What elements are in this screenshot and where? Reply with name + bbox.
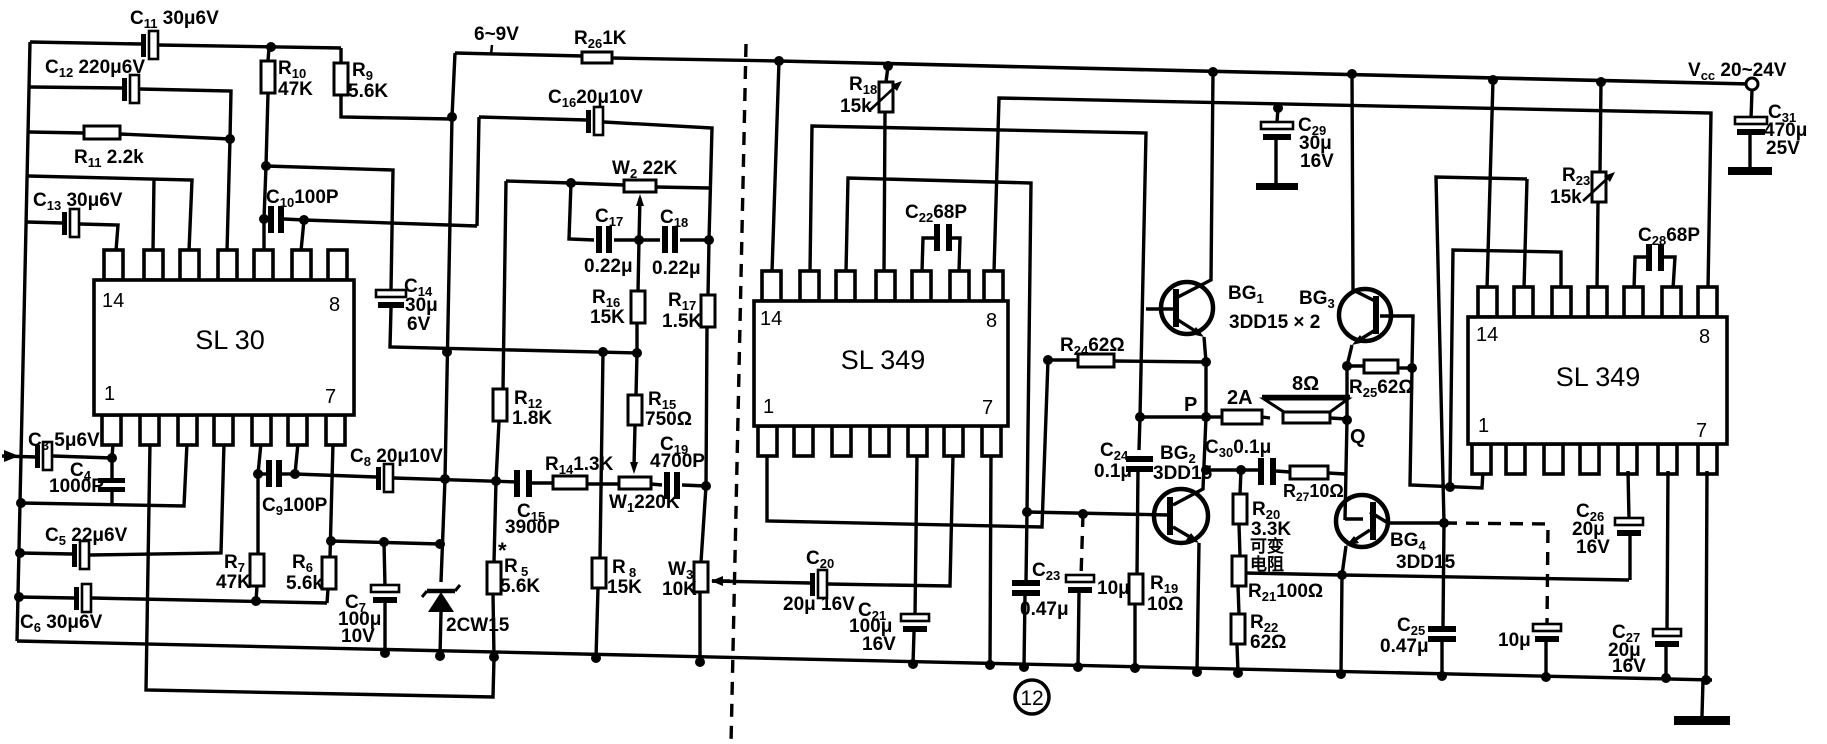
- resistor R20: [1240, 470, 1241, 494]
- svg-text:8: 8: [1699, 326, 1710, 348]
- svg-text:8: 8: [986, 310, 997, 332]
- node R20 top: [1236, 465, 1246, 475]
- node BG3 collector rail: [1347, 69, 1357, 79]
- node W3 bottom bus: [695, 657, 705, 667]
- node W2 left: [566, 178, 576, 188]
- wire 6-9V supply vertical: [441, 53, 455, 582]
- capacitor C6: [19, 597, 74, 598]
- capacitor C7: [384, 542, 385, 587]
- transistor BG3: [1339, 289, 1391, 341]
- svg-text:C5 22μ6V: C5 22μ6V: [45, 525, 128, 548]
- wire SL349 pin2 to BG1 base line: [810, 126, 1146, 417]
- wire bottom ground bus: [17, 641, 1712, 680]
- wire C9 to C8: [295, 474, 376, 477]
- node C17/C18 mid: [634, 235, 644, 245]
- svg-text:3DD15 × 2: 3DD15 × 2: [1229, 312, 1320, 333]
- node BG4 emitter bus: [1336, 669, 1346, 679]
- capacitor C25: [1443, 523, 1444, 626]
- resistor R6: [322, 557, 336, 589]
- svg-text:R2562Ω: R2562Ω: [1349, 377, 1414, 400]
- capacitor C3: [35, 445, 40, 468]
- resistor R25: [1342, 361, 1352, 371]
- svg-text:8Ω: 8Ω: [1292, 373, 1319, 395]
- IC U1 SL 30: [104, 250, 123, 280]
- resistor R5: [494, 481, 496, 562]
- svg-text:0.1μ: 0.1μ: [1094, 461, 1132, 482]
- node R24 right on emitter line: [1201, 357, 1211, 367]
- R21 wiper tap: [1246, 573, 1629, 580]
- node C12/R11 junction: [225, 134, 235, 144]
- node supply/C14 row crossing: [442, 347, 452, 357]
- svg-text:3900P: 3900P: [505, 517, 560, 538]
- svg-text:14: 14: [102, 290, 124, 312]
- wire right-IC pin1-top riser: [1487, 80, 1493, 289]
- capacitor C10: [268, 206, 274, 233]
- svg-text:电阻: 电阻: [1250, 554, 1284, 574]
- speaker 8 ohm: [1262, 395, 1350, 400]
- svg-text:可变: 可变: [1250, 536, 1284, 556]
- svg-text:0.47μ: 0.47μ: [1380, 636, 1429, 657]
- capacitor C29: [1277, 108, 1278, 122]
- capacitor C27: [1667, 471, 1668, 631]
- node C10 right / pin6: [299, 215, 309, 225]
- capacitor C21: [915, 455, 917, 616]
- wire C10 row to C16 riser: [304, 220, 477, 226]
- resistor R26: [455, 53, 583, 56]
- capacitor C24: [1126, 456, 1153, 462]
- svg-text:5.6K: 5.6K: [348, 81, 388, 102]
- wire Vcc top rail: [779, 61, 1750, 84]
- svg-text:2CW15: 2CW15: [446, 615, 510, 636]
- svg-text:R21100Ω: R21100Ω: [1248, 581, 1323, 604]
- zener diode 2CW15: [428, 592, 454, 612]
- IC U3 SL 349 right: [1478, 287, 1497, 317]
- wire C4 bottom row: [21, 443, 187, 506]
- fuse 2A: [1206, 415, 1222, 418]
- node R12 bottom / C8-C15 row: [491, 476, 501, 486]
- svg-text:1: 1: [763, 396, 774, 418]
- wire Q to BG4 base: [1345, 420, 1347, 520]
- svg-text:C6 30μ6V: C6 30μ6V: [20, 612, 103, 635]
- svg-text:14: 14: [1476, 324, 1498, 346]
- resistor R15: [636, 353, 637, 396]
- capacitor C30: [1206, 468, 1258, 471]
- svg-text:R141.3K: R141.3K: [545, 454, 614, 477]
- svg-text:16V: 16V: [1612, 656, 1646, 677]
- svg-text:C9100P: C9100P: [262, 495, 328, 518]
- resistor R24: [1043, 355, 1053, 365]
- svg-text:1.5K: 1.5K: [662, 311, 702, 332]
- node C7 top: [379, 537, 389, 547]
- transistor BG2: [1154, 489, 1208, 543]
- W3 wiper arrow from C20: [712, 579, 730, 582]
- resistor R21 variable: [1232, 556, 1246, 586]
- svg-text:8: 8: [329, 294, 340, 316]
- input arrow: [2, 456, 37, 457]
- svg-text:*: *: [498, 538, 507, 563]
- svg-text:C2268P: C2268P: [905, 202, 967, 225]
- node R5 bottom bus: [489, 652, 499, 662]
- node Q junction: [1342, 415, 1352, 425]
- node P junction: [1135, 412, 1145, 422]
- svg-text:10K: 10K: [662, 579, 697, 600]
- node C9 left / pin5: [253, 469, 263, 479]
- svg-text:1: 1: [104, 383, 115, 405]
- capacitor C9: [258, 472, 266, 475]
- svg-text:R2710Ω: R2710Ω: [1283, 481, 1344, 504]
- svg-text:C300.1μ: C300.1μ: [1205, 437, 1271, 460]
- node R6 top wire junction: [326, 536, 336, 546]
- svg-text:C13 30μ6V: C13 30μ6V: [33, 190, 123, 213]
- node supply/C8 row: [440, 474, 450, 484]
- resistor R23 variable: [1600, 82, 1601, 172]
- resistor R17: [708, 240, 709, 296]
- resistor R22: [1231, 614, 1245, 644]
- svg-text:7: 7: [982, 397, 993, 419]
- dashed channel separator: [731, 44, 746, 744]
- svg-text:P: P: [1184, 394, 1197, 416]
- node C23 top / BG2 base: [1022, 507, 1032, 517]
- capacitor C31: [1751, 90, 1752, 119]
- node supply/R9 junction: [447, 112, 457, 122]
- ground main: [1702, 680, 1703, 716]
- svg-text:7: 7: [325, 386, 336, 408]
- node pin3 line junction: [1445, 482, 1455, 492]
- node BG4 emitter wiper junction: [1337, 570, 1347, 580]
- svg-text:47K: 47K: [278, 79, 313, 100]
- svg-text:R2462Ω: R2462Ω: [1060, 335, 1125, 358]
- node BG1 collector rail: [1208, 67, 1218, 77]
- svg-text:0.22μ: 0.22μ: [584, 256, 633, 277]
- node rail/pin14 SL349: [774, 56, 784, 66]
- svg-text:0.47μ: 0.47μ: [1020, 599, 1069, 620]
- svg-text:Q: Q: [1350, 426, 1366, 448]
- svg-text:3DD15: 3DD15: [1396, 552, 1456, 573]
- IC U2 SL 349: [762, 271, 781, 301]
- svg-text:10μ: 10μ: [1097, 578, 1130, 599]
- node rail2 / C29: [1273, 103, 1283, 113]
- capacitor C14: [266, 166, 393, 290]
- resistor R7: [250, 554, 264, 586]
- resistor R9: [334, 63, 348, 95]
- node rail pin1 right IC: [1488, 75, 1498, 85]
- svg-text:14: 14: [760, 308, 782, 330]
- capacitor C11: [30, 42, 141, 44]
- node C7 bottom bus: [380, 648, 390, 658]
- node 10u bus: [1073, 662, 1083, 672]
- svg-text:15K: 15K: [590, 307, 625, 328]
- wire pin14 SL349 riser: [772, 61, 779, 272]
- wire right-IC pin2 feedback line: [1436, 177, 1527, 523]
- wire BG2 base: [1027, 512, 1168, 515]
- svg-text:15K: 15K: [607, 577, 642, 598]
- wire P node: [1140, 415, 1206, 418]
- svg-text:16V: 16V: [1300, 151, 1334, 172]
- capacitor C4: [110, 458, 113, 479]
- svg-text:15k: 15k: [840, 96, 872, 117]
- capacitor C17: [596, 226, 602, 253]
- wire R25 right to SL349 pin1 jog: [1410, 368, 1483, 488]
- node C18 right: [704, 235, 714, 245]
- svg-text:2A: 2A: [1227, 387, 1253, 409]
- terminal Vcc: [1746, 78, 1758, 90]
- svg-text:47K: 47K: [216, 572, 251, 593]
- svg-text:R11 2.2k: R11 2.2k: [74, 147, 144, 170]
- node rail R23: [1596, 77, 1606, 87]
- resistor R8: [600, 352, 603, 558]
- svg-text:5.6k: 5.6k: [286, 573, 323, 594]
- wire W2-left to R12: [569, 183, 594, 240]
- node 10u right bus: [1541, 672, 1551, 682]
- resistor R16: [638, 240, 639, 292]
- node supply/zener row: [435, 539, 445, 549]
- W1 wiper arrow: [634, 425, 635, 466]
- wire BG1 base line down / C24 / R19: [1139, 417, 1140, 450]
- wire row to pins 2,3 of SL30: [28, 176, 192, 251]
- ground C31: [1728, 167, 1772, 175]
- W2 wiper: [639, 198, 640, 240]
- node R16/R15 junction: [632, 348, 642, 358]
- svg-text:10Ω: 10Ω: [1147, 594, 1183, 615]
- wire right-IC pin7 to bus: [1706, 471, 1707, 680]
- wire SL349 pin3 to BG2 base line: [846, 178, 1031, 512]
- capacitor C13: [27, 222, 62, 223]
- svg-text:6~9V: 6~9V: [474, 24, 519, 45]
- svg-text:10V: 10V: [341, 626, 375, 647]
- transistor BG4: [1336, 495, 1388, 547]
- svg-text:12: 12: [1020, 687, 1043, 710]
- resistor R12: [503, 181, 506, 390]
- capacitor bootstrap 10μ right: [1533, 624, 1561, 631]
- capacitor C5: [20, 553, 72, 554]
- potentiometer W2: [506, 181, 571, 183]
- svg-text:C10100P: C10100P: [266, 187, 339, 210]
- capacitor C8: [376, 467, 381, 490]
- svg-text:SL 349: SL 349: [1556, 362, 1641, 392]
- capacitor C26: [1628, 471, 1629, 519]
- svg-text:20μ 16V: 20μ 16V: [783, 594, 855, 615]
- node C9 right / pin6: [290, 469, 300, 479]
- svg-text:R: R: [612, 557, 626, 578]
- node C10 left / R10 / pin5: [259, 214, 269, 224]
- resistor R10: [261, 61, 275, 93]
- potentiometer W1: [619, 477, 651, 489]
- svg-text:C3 5μ6V: C3 5μ6V: [28, 430, 100, 453]
- svg-text:7: 7: [1696, 420, 1707, 442]
- wire SL349 pin8 second rail: [994, 98, 1711, 289]
- potentiometer W3: [694, 562, 708, 592]
- wire bottom-left loop from SL30 pin2: [146, 443, 494, 697]
- svg-text:W2 22K: W2 22K: [612, 158, 678, 181]
- svg-text:1000P: 1000P: [49, 476, 104, 497]
- capacitor C16: [479, 117, 587, 120]
- svg-text:1.8K: 1.8K: [512, 408, 552, 429]
- node R8 bottom bus: [591, 653, 601, 663]
- wire SL349 pin1 to R24: [767, 360, 1048, 527]
- node R19 bus: [1130, 663, 1140, 673]
- svg-text:SL 30: SL 30: [195, 325, 265, 355]
- capacitor C20: [712, 581, 810, 583]
- ground C29: [1256, 183, 1298, 190]
- transistor BG1: [1161, 282, 1213, 334]
- node C25 bus: [1437, 671, 1447, 681]
- capacitor C22: [922, 238, 936, 272]
- capacitor bootstrap 10μ left: [1078, 509, 1088, 519]
- capacitor C18: [639, 238, 660, 241]
- svg-text:15k: 15k: [1550, 187, 1582, 208]
- svg-text:SL 349: SL 349: [841, 345, 926, 375]
- svg-text:C11 30μ6V: C11 30μ6V: [130, 8, 219, 31]
- dashed bootstrap link right: [1444, 523, 1548, 626]
- resistor R11: [29, 132, 84, 133]
- wire right-IC pin3 line: [1450, 250, 1561, 487]
- node BG2 emitter bus: [1192, 667, 1202, 677]
- svg-text:16V: 16V: [1576, 537, 1610, 558]
- svg-text:C2868P: C2868P: [1638, 225, 1700, 248]
- node R10/C14 junction: [261, 161, 271, 171]
- svg-text:6V: 6V: [407, 314, 431, 335]
- svg-text:0.22μ: 0.22μ: [652, 258, 701, 279]
- wire left vertical supply-decoupling bus: [17, 42, 30, 641]
- node C3/C4/pin1 junction: [107, 453, 117, 463]
- capacitor C12: [30, 87, 122, 88]
- svg-text:62Ω: 62Ω: [1250, 632, 1286, 653]
- svg-text:1: 1: [1478, 415, 1489, 437]
- node C19 right / R17-W3 line: [701, 481, 711, 491]
- resistor R27: [1290, 466, 1328, 479]
- circled 12 note: [1015, 680, 1049, 714]
- node R8 line junction: [598, 347, 608, 357]
- svg-text:10μ: 10μ: [1498, 630, 1531, 651]
- node R7 bottom: [251, 596, 261, 606]
- node zener bottom bus: [435, 651, 445, 661]
- resistor R14: [553, 476, 587, 489]
- svg-text:4700P: 4700P: [650, 451, 705, 472]
- node R10 top junction: [266, 42, 276, 52]
- svg-text:30μ: 30μ: [405, 295, 438, 316]
- node BG4 collector junction: [1439, 518, 1449, 528]
- capacitor C15: [514, 470, 520, 497]
- node C23 bus: [1019, 662, 1029, 672]
- svg-text:25V: 25V: [1766, 138, 1800, 159]
- svg-text:16V: 16V: [862, 634, 896, 655]
- svg-text:5.6K: 5.6K: [500, 576, 540, 597]
- wire pin2 SL30 branch: [153, 178, 154, 251]
- wire R6/C7/zener row: [331, 541, 440, 544]
- node R22 bus: [1233, 668, 1243, 678]
- node C27 bus: [1661, 673, 1671, 683]
- node C21 bus: [908, 659, 918, 669]
- capacitor C19: [664, 472, 670, 499]
- capacitor C28: [1634, 257, 1648, 289]
- resistor R19: [1129, 574, 1143, 604]
- wire SL349 pin7 to bus: [990, 455, 991, 665]
- svg-text:750Ω: 750Ω: [645, 409, 692, 430]
- capacitor C23: [1026, 512, 1027, 581]
- resistor R18 variable: [883, 61, 893, 71]
